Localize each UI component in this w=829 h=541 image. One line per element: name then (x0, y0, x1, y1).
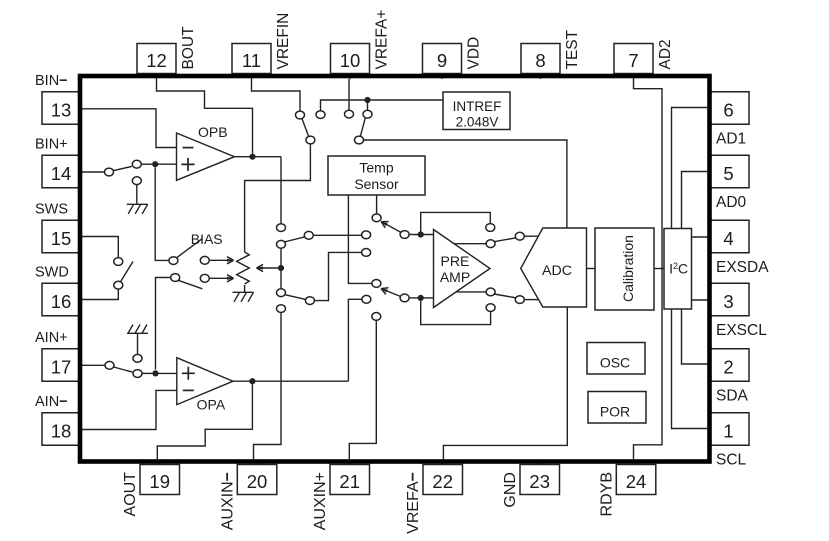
svg-text:POR: POR (600, 404, 630, 420)
svg-text:Temp: Temp (359, 159, 393, 175)
wire AUXIN+ column to pin21 (349, 320, 376, 461)
svg-text:AD0: AD0 (716, 194, 747, 211)
wire pin15 (82, 237, 118, 258)
svg-text:24: 24 (626, 471, 647, 492)
wire preamp- input (409, 297, 433, 299)
arrow from AUX column into resistor (257, 267, 278, 269)
OPB plus symbol (182, 158, 195, 171)
junction preamp+ feedback (418, 231, 424, 237)
switch contact feedback bottom (486, 304, 495, 312)
svg-text:18: 18 (51, 420, 72, 441)
switch lever BIN+ (113, 166, 132, 170)
switch1 lever (302, 119, 309, 136)
switch contact row1 right (362, 231, 371, 239)
block Temp Sensor (328, 156, 425, 195)
svg-text:BOUT: BOUT (180, 26, 197, 70)
wire ADC bottom to pin22 (443, 307, 567, 461)
wire switch2 common to ADC (364, 140, 567, 228)
wire ADC to Calibration (587, 268, 596, 270)
svg-text:11: 11 (242, 50, 261, 71)
switch contact preamp- input (400, 294, 409, 302)
wire pin12 to OPB output (157, 79, 253, 154)
op-amp PRE AMP (434, 230, 491, 308)
pin 4 box (710, 220, 750, 253)
BIAS lower arrow to resistor (209, 277, 233, 279)
OPA minus symbol (183, 389, 194, 391)
wire OPB output (235, 156, 282, 158)
resistor BIAS (237, 252, 250, 284)
wire OPB output down to contact (280, 157, 282, 224)
pin 8 stub (540, 74, 542, 80)
wire preamp+ input (409, 234, 433, 236)
BIAS switch contact lower-left (171, 274, 180, 282)
wire I2C to pin1 SCL (672, 309, 709, 429)
svg-text:6: 6 (723, 99, 733, 120)
svg-text:TEST: TEST (564, 29, 581, 69)
pin 24 stub (635, 461, 637, 465)
junction INTREF tap (364, 97, 370, 103)
switch contact SWD (114, 281, 123, 289)
pin 22 stub (442, 461, 444, 465)
switch contact temp upper (372, 214, 381, 222)
svg-text:20: 20 (247, 471, 268, 492)
svg-text:SCL: SCL (716, 451, 747, 468)
svg-text:14: 14 (51, 163, 72, 184)
pin 12 stub (156, 74, 158, 80)
svg-text:AD2: AD2 (657, 39, 674, 69)
wire pin17 (82, 364, 105, 366)
svg-text:21: 21 (339, 471, 360, 492)
pin 17 box (42, 349, 80, 382)
pin 7 box (614, 44, 653, 74)
pin 9 stub (441, 74, 443, 80)
wire OPB+ junction to BIAS switch (155, 167, 169, 260)
switch lever AIN+ (114, 367, 133, 372)
pin 11 stub (251, 74, 253, 80)
lever column to row1 (284, 237, 306, 242)
pin 9 box (423, 44, 462, 74)
wire OPA output (233, 380, 348, 382)
svg-text:VREFA+: VREFA+ (374, 10, 391, 70)
wire pin10 to switch contact (348, 79, 350, 110)
svg-text:AD1: AD1 (716, 130, 746, 147)
switch contact column upper-mid (277, 240, 286, 248)
svg-text:9: 9 (437, 50, 447, 71)
wire preamp top tap (454, 243, 486, 245)
switch2 common (355, 136, 364, 144)
wire I2C to pin4 EXSDA (692, 236, 709, 238)
svg-text:15: 15 (51, 228, 72, 249)
switch2 lever (361, 118, 366, 136)
svg-text:VREFIN: VREFIN (275, 13, 292, 70)
svg-text:SDA: SDA (716, 387, 749, 404)
block ADC (521, 228, 587, 307)
switch contact row1 left (304, 231, 313, 239)
switch contact ADC bottom common (515, 296, 524, 304)
pin 20 box (237, 465, 276, 495)
junction preamp- feedback (418, 295, 424, 301)
pin 16 box (42, 283, 80, 316)
pin 10 stub (349, 74, 351, 80)
wire row1 (313, 234, 361, 236)
switch contact OPA out row (362, 295, 371, 303)
ground above AIN+ switch (127, 325, 148, 334)
junction OPA plus input (152, 370, 158, 376)
junction column to resistor arrow (278, 265, 284, 271)
svg-text:BIN+: BIN+ (35, 136, 68, 152)
pin 8 box (521, 44, 560, 74)
wire into ADC bottom (524, 299, 538, 301)
switch contact column bottom (277, 305, 286, 313)
lever top out to ADC (494, 238, 517, 242)
switch contact ADC top common (515, 232, 524, 240)
svg-text:AUXIN+: AUXIN+ (312, 472, 329, 530)
switch contact to OPA+ (133, 370, 142, 378)
switch contact to OPB+ (132, 160, 141, 168)
pin 6 box (710, 92, 750, 125)
svg-text:AIN+: AIN+ (35, 330, 68, 346)
wire INTREF to switch contacts (321, 100, 444, 111)
wire I2C to pin2 SDA (682, 309, 709, 364)
svg-text:12: 12 (146, 50, 167, 71)
pin 23 stub (539, 461, 541, 465)
wire contact to ground (136, 185, 138, 204)
svg-text:OSC: OSC (600, 354, 630, 370)
svg-text:ADC: ADC (542, 263, 572, 279)
pin 18 box (42, 413, 80, 446)
wire pin14 (82, 171, 105, 173)
wire column mid (280, 248, 282, 289)
svg-text:AOUT: AOUT (122, 472, 139, 517)
svg-text:16: 16 (51, 291, 72, 312)
ground below BIN+ switch (127, 204, 148, 214)
wire temp sensor left output (348, 195, 372, 283)
junction OPB output (249, 154, 255, 160)
switch contact column top (277, 224, 286, 232)
wire contact to upper ground (137, 333, 139, 354)
OPA plus symbol (182, 367, 195, 380)
switch contact feedback top (486, 224, 495, 232)
switch contact temp lower (372, 280, 381, 288)
wire preamp bottom feedback (421, 298, 491, 325)
pin 1 box (710, 413, 750, 446)
BIAS switch contact lower-right (200, 274, 209, 282)
svg-text:EXSDA: EXSDA (716, 259, 769, 276)
pin 23 box (520, 465, 560, 495)
wire pin13 to OPB inverting input (82, 109, 177, 148)
pin 12 box (137, 44, 176, 74)
BIAS upper lever (176, 239, 202, 258)
block Calibration (595, 228, 654, 310)
wire BIAS lower contact down to OPA input (156, 278, 171, 370)
switch contact preamp bottom out (486, 288, 495, 296)
wire I2C to pin3 EXSCL (692, 299, 709, 301)
junction OPB plus input (152, 161, 158, 167)
pin 21 stub (349, 461, 351, 465)
wire to OPB plus junction (141, 163, 152, 165)
switch contact INTREF-A (316, 111, 325, 119)
svg-text:2: 2 (723, 356, 733, 377)
pin 15 box (42, 220, 80, 253)
pin 22 box (423, 465, 463, 495)
BIAS switch contact upper-right (200, 256, 209, 264)
junction OPA output (249, 378, 255, 384)
svg-text:EXSCL: EXSCL (716, 322, 767, 339)
BIAS upper arrow to resistor (209, 259, 233, 261)
wire into ADC top (524, 235, 538, 237)
switch contact AUXIN+ column (372, 313, 381, 321)
svg-text:7: 7 (628, 50, 638, 71)
wire pin11 to switch contact (252, 79, 301, 111)
svg-text:RDYB: RDYB (598, 472, 615, 516)
pin 7 stub (633, 74, 635, 80)
switch contact row2 right (362, 249, 371, 257)
wire Calibration to I2C (654, 268, 664, 270)
switch contact SWS (114, 258, 123, 266)
svg-text:SWD: SWD (35, 264, 69, 280)
svg-text:GND: GND (502, 472, 519, 508)
svg-text:3: 3 (723, 291, 733, 312)
switch contact preamp top out (486, 240, 495, 248)
wire OPA output to pin19 (157, 381, 252, 461)
pin 10 box (331, 44, 370, 74)
block I2C (664, 229, 692, 310)
op-amp OPB (177, 133, 235, 180)
svg-text:OPB: OPB (198, 124, 228, 140)
svg-text:23: 23 (529, 471, 550, 492)
svg-text:I2C: I2C (669, 260, 688, 276)
op-amp OPA (177, 358, 233, 405)
wire temp sensor right output (376, 195, 378, 214)
pin 5 box (710, 155, 750, 188)
block OSC (587, 343, 645, 375)
svg-text:1: 1 (723, 420, 733, 441)
wire pin16 (82, 289, 118, 299)
wire row2 to lower contact (314, 252, 361, 300)
svg-text:OPA: OPA (197, 397, 226, 413)
pin 20 stub (256, 461, 258, 465)
pin 11 box (232, 44, 271, 74)
wire pin18 to OPA minus (82, 390, 177, 429)
svg-text:22: 22 (432, 471, 453, 492)
pin 21 box (330, 465, 370, 495)
wire to OPA plus junction (142, 372, 152, 374)
ground below resistor (233, 292, 254, 302)
pin 24 box (616, 465, 656, 495)
switch contact AIN+ to ground (133, 354, 142, 362)
svg-text:8: 8 (535, 50, 545, 71)
svg-text:10: 10 (340, 50, 361, 71)
svg-text:VDD: VDD (466, 37, 483, 70)
lever preamp+ to temp sensor (381, 222, 401, 233)
pin 19 box (140, 465, 180, 495)
switch contact VREFIN (296, 111, 305, 119)
svg-text:BIAS: BIAS (191, 231, 223, 247)
pin 14 box (42, 155, 80, 188)
wire column down to pin20 (254, 313, 282, 462)
OPB minus symbol (183, 147, 194, 149)
switch contact VREFA+ (345, 110, 354, 118)
lever column to row2 (284, 295, 305, 300)
wire OPA output up to contact (348, 299, 362, 381)
switch contact INTREF-B (363, 110, 372, 118)
svg-text:4: 4 (723, 228, 733, 249)
svg-text:SWS: SWS (35, 201, 68, 217)
svg-text:AUXIN−: AUXIN− (219, 472, 236, 530)
svg-text:13: 13 (51, 99, 72, 120)
lever preamp- to temp sensor (381, 289, 401, 297)
lever bottom out to ADC (494, 294, 517, 298)
block POR (588, 392, 646, 424)
BIAS lower lever (178, 280, 202, 289)
wire into OPB plus (155, 163, 176, 165)
switch contact pin14 (105, 168, 114, 176)
wire into OPA plus (156, 372, 177, 374)
block INTREF (443, 92, 510, 130)
svg-text:19: 19 (149, 471, 170, 492)
wire switch1 common to resistor (245, 144, 311, 252)
pin 3 box (710, 283, 750, 316)
svg-text:2.048V: 2.048V (456, 115, 499, 130)
svg-text:Sensor: Sensor (354, 176, 399, 192)
switch lever SWS-SWD (121, 262, 133, 282)
resistor bottom lead (244, 285, 246, 292)
svg-text:5: 5 (723, 163, 733, 184)
svg-text:AIN−: AIN− (35, 394, 68, 410)
BIAS switch contact upper-left (169, 257, 178, 265)
svg-text:PRE: PRE (441, 253, 470, 269)
switch1 common (306, 136, 315, 144)
wire pin5 AD0 to I2C (682, 172, 709, 229)
svg-text:17: 17 (51, 356, 72, 377)
pin 19 stub (159, 461, 161, 465)
wire preamp bottom tap (456, 291, 486, 293)
svg-text:Calibration: Calibration (620, 235, 636, 302)
switch contact row2 left (305, 297, 314, 305)
pin 13 box (42, 92, 80, 125)
svg-text:INTREF: INTREF (453, 99, 502, 114)
chip outline (80, 76, 710, 462)
switch contact pin17 (105, 361, 114, 369)
switch contact preamp+ input (400, 231, 409, 239)
svg-text:BIN−: BIN− (35, 73, 68, 89)
wire preamp top feedback (421, 212, 491, 234)
svg-text:VREFA−: VREFA− (405, 472, 422, 534)
switch contact to ground (132, 177, 141, 185)
wire pin6 AD1 to I2C (672, 108, 709, 229)
pin 2 box (710, 349, 750, 382)
switch contact column lower-mid (277, 289, 286, 297)
wire pin7 AD2 down to RDYB pin24 (634, 79, 663, 461)
svg-text:AMP: AMP (440, 269, 470, 285)
